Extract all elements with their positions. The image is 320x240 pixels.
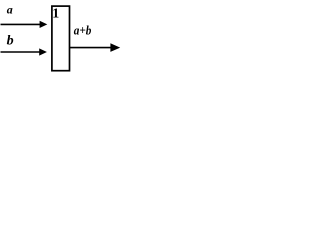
arrowhead input b xyxy=(39,48,47,55)
wire input a xyxy=(1,23,41,25)
svg-text:a: a xyxy=(7,3,13,17)
arrowhead output xyxy=(110,43,120,52)
wire input b xyxy=(1,51,41,53)
svg-text:1: 1 xyxy=(52,6,59,21)
arrowhead input a xyxy=(40,21,48,28)
svg-text:b: b xyxy=(7,34,14,49)
svg-text:a+b: a+b xyxy=(74,22,92,37)
adder block U1 xyxy=(52,6,70,71)
wire output a+b xyxy=(70,47,112,49)
